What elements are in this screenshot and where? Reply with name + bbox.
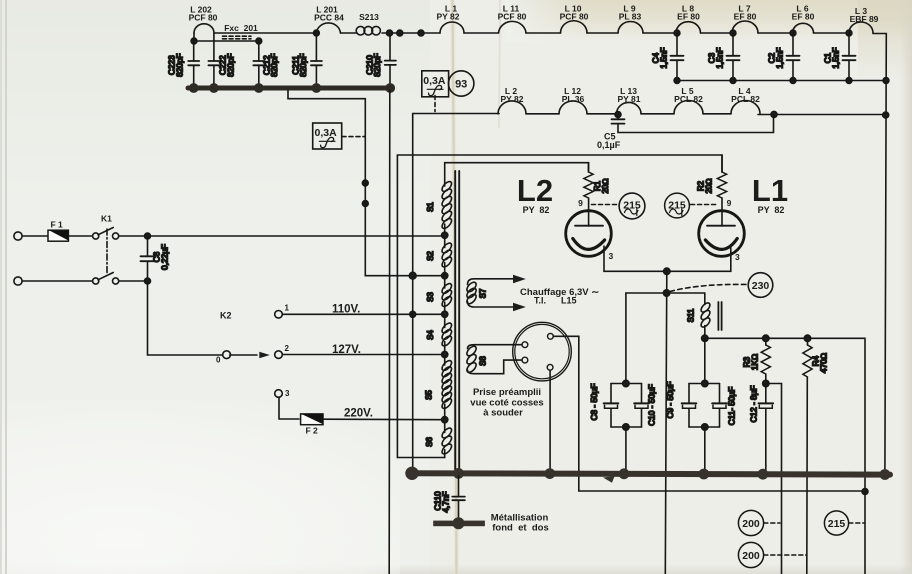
- winding S7 heater 6.3V: [465, 275, 526, 311]
- winding S11: [687, 293, 722, 338]
- winding S6: [425, 420, 453, 458]
- svg-text:PCF 80: PCF 80: [560, 12, 589, 22]
- wire boost line down page: [665, 271, 667, 574]
- wire B: S1 top to R1 (L2 heater): [445, 163, 589, 180]
- svg-text:1: 1: [285, 304, 290, 313]
- wire: [22, 235, 48, 237]
- wire down to selector K2: [148, 281, 223, 355]
- svg-text:L1: L1: [752, 173, 788, 208]
- wire HT rail y338: [705, 338, 865, 491]
- svg-text:S7: S7: [479, 288, 488, 298]
- svg-text:K2: K2: [220, 311, 232, 321]
- svg-text:C10 - 50µF: C10 - 50µF: [647, 384, 657, 426]
- svg-text:1KΩ: 1KΩ: [749, 353, 759, 370]
- svg-text:PY 82: PY 82: [523, 205, 550, 215]
- svg-text:220V.: 220V.: [344, 408, 373, 420]
- svg-text:820pF: 820pF: [174, 53, 184, 77]
- svg-text:200: 200: [742, 550, 760, 562]
- svg-text:3: 3: [285, 389, 290, 398]
- wire S2/S3 tap to selector column: [365, 275, 444, 277]
- svg-text:EF 80: EF 80: [792, 12, 815, 22]
- winding S3: [426, 276, 453, 315]
- switch K1 bottom pole: [93, 273, 119, 285]
- heater choke L202 PCF80: [189, 5, 218, 34]
- wire row1 to right edge vertical: [873, 33, 886, 35]
- svg-text:L2: L2: [517, 173, 553, 208]
- test point 215 bottom: [824, 511, 864, 535]
- bus terminal dot: [405, 467, 418, 480]
- svg-text:K1: K1: [101, 214, 112, 224]
- svg-text:820pF: 820pF: [225, 53, 235, 77]
- svg-text:PCF 80: PCF 80: [189, 13, 218, 23]
- preamp socket: [513, 322, 572, 381]
- test point 200 lower: [738, 542, 806, 567]
- wire row2 right segment: [758, 114, 886, 116]
- svg-text:C8 - 50µF: C8 - 50µF: [589, 383, 599, 420]
- capacitor C110 4,7nF: [433, 476, 465, 521]
- fuse F1: [48, 220, 68, 242]
- wire: [69, 235, 93, 237]
- capacitor C2 1,5nF: [767, 30, 800, 83]
- svg-text:PL 83: PL 83: [619, 12, 642, 22]
- winding S5: [425, 355, 454, 420]
- svg-text:4,7nF: 4,7nF: [440, 491, 450, 512]
- label L1: [752, 173, 788, 215]
- svg-text:PCL 82: PCL 82: [674, 94, 703, 104]
- capacitor C212: [253, 41, 279, 86]
- wire: [119, 280, 148, 282]
- svg-text:0: 0: [216, 356, 221, 365]
- svg-text:1,5nF: 1,5nF: [658, 47, 668, 68]
- svg-text:F 1: F 1: [51, 220, 64, 230]
- capacitor C6: [141, 238, 170, 279]
- node S11 bottom: [702, 335, 708, 341]
- text Prise preamplii: [470, 387, 543, 419]
- svg-text:215: 215: [828, 518, 846, 530]
- svg-text:0,22µF: 0,22µF: [159, 244, 169, 270]
- contact 3: [275, 389, 290, 398]
- chassis bus top (thick): [188, 86, 393, 91]
- svg-text:C12 - 8µF: C12 - 8µF: [749, 385, 759, 422]
- wire branch to C8 and S11: [626, 292, 705, 294]
- contact 2: [275, 344, 290, 358]
- resistor R4 470ohm: [803, 335, 828, 574]
- capacitors C8/C10 50uF: [589, 293, 657, 472]
- svg-text:1,5nF: 1,5nF: [774, 47, 784, 68]
- ground bus bottom (thick): [412, 473, 891, 474]
- svg-text:PCF 80: PCF 80: [498, 12, 527, 22]
- wire bus to voltage-selector column: [362, 180, 368, 186]
- winding S2: [426, 235, 453, 275]
- svg-text:S2: S2: [426, 251, 435, 261]
- wire L202 left lead down: [193, 33, 195, 41]
- wire L2 cathode pin 3: [604, 246, 667, 271]
- svg-text:3: 3: [735, 252, 740, 262]
- text Chauffage: [520, 287, 599, 306]
- node cathodes junction: [664, 268, 670, 274]
- heater choke L 1 PY 82: [436, 4, 464, 34]
- wire R3 bottom branch down page: [766, 384, 782, 574]
- heater choke L 8 EF 80: [643, 4, 701, 34]
- svg-text:0,3A: 0,3A: [423, 75, 446, 87]
- svg-text:S8: S8: [479, 356, 488, 366]
- contact 1: [275, 304, 290, 319]
- chassis terminal metallisation: [433, 517, 485, 529]
- winding S8 preamp heater: [465, 345, 522, 374]
- heater choke L 12 PL 36: [526, 86, 587, 114]
- svg-text:20Ω: 20Ω: [601, 178, 610, 193]
- wire cap-bank top rail: [194, 40, 259, 42]
- svg-text:EF 80: EF 80: [734, 12, 757, 22]
- test point 200 upper: [738, 510, 780, 535]
- wire L1 cathode pin 3: [667, 247, 731, 271]
- text Metallisation: [491, 512, 549, 533]
- wire socket pin4 to bus: [549, 370, 551, 472]
- ferrite bead Fxc 201: [223, 23, 259, 39]
- wire S6 bottom: [397, 457, 444, 459]
- wire 110V: [283, 313, 445, 315]
- heater choke L 10 PCF 80: [526, 4, 589, 34]
- resistor R2 20ohm: [697, 155, 727, 226]
- wire contact3 down: [279, 397, 299, 419]
- wire C210/chassis vertical down page: [388, 90, 391, 574]
- svg-text:0,3A: 0,3A: [315, 127, 338, 139]
- heater choke L 11 PCF 80: [464, 4, 527, 34]
- svg-text:S3: S3: [426, 292, 435, 302]
- svg-text:1,5nF: 1,5nF: [830, 47, 840, 68]
- svg-text:S4: S4: [426, 330, 435, 340]
- svg-text:PY 82: PY 82: [758, 205, 785, 215]
- wire K1 to transformer tap S1/S2: [119, 235, 445, 237]
- capacitor C5 0,1uF: [597, 112, 774, 151]
- svg-text:PY 81: PY 81: [617, 94, 640, 104]
- tap junction dots: [442, 232, 448, 238]
- svg-text:Fxc 201: Fxc 201: [224, 23, 258, 33]
- heater choke L 5 PCL 82: [641, 86, 703, 114]
- svg-text:EF 80: EF 80: [677, 12, 700, 22]
- fuse F2: [301, 414, 323, 436]
- dashed link fuse to heater row2: [434, 96, 436, 112]
- svg-text:2: 2: [285, 344, 290, 353]
- svg-text:S1: S1: [426, 202, 435, 212]
- svg-text:93: 93: [455, 79, 467, 91]
- wire: [22, 280, 92, 282]
- wire socket pin to test line: [553, 336, 579, 491]
- svg-text:S11: S11: [687, 308, 696, 322]
- capacitor C211: [314, 30, 320, 36]
- label L2: [517, 173, 553, 215]
- svg-text:127V.: 127V.: [332, 344, 361, 356]
- heater choke L 2 PY 82: [498, 86, 526, 114]
- wiper arrow: [230, 354, 257, 356]
- selector K2 common contact 0: [216, 311, 232, 365]
- wire 220V: [323, 418, 445, 421]
- switch K1 link dash-dot: [106, 229, 108, 273]
- switch K1 top pole: [93, 214, 119, 240]
- svg-text:C11- 50µF: C11- 50µF: [727, 387, 737, 426]
- svg-text:470Ω: 470Ω: [818, 352, 828, 373]
- winding S4: [426, 314, 453, 354]
- tube L2 PY82: [566, 198, 612, 256]
- wire right-edge vertical: [885, 34, 886, 475]
- capacitors C9/C11 50uF: [665, 338, 737, 472]
- svg-text:PL 36: PL 36: [562, 94, 585, 104]
- svg-text:PCC 84: PCC 84: [314, 13, 344, 23]
- node boost branch: [663, 290, 669, 296]
- page fold seam: [453, 0, 457, 574]
- resistor R1 20ohm: [584, 163, 610, 226]
- svg-text:PY 82: PY 82: [436, 12, 459, 22]
- capacitor C222: [208, 33, 235, 86]
- svg-text:S213: S213: [359, 12, 379, 22]
- wire 127V: [283, 354, 445, 356]
- svg-text:EBF 89: EBF 89: [850, 14, 879, 24]
- svg-text:C9 - 50µF: C9 - 50µF: [665, 381, 675, 418]
- svg-text:S6: S6: [425, 437, 434, 447]
- capacitor C4 1,5nF: [651, 30, 684, 83]
- node test line: [862, 489, 868, 495]
- svg-text:PY 82: PY 82: [500, 94, 523, 104]
- heater choke L 7 EF 80: [701, 4, 759, 34]
- fuse 0,3A (selector column): [313, 123, 342, 149]
- svg-text:820pF: 820pF: [269, 53, 279, 77]
- left paper crease: [5, 0, 7, 574]
- heater choke L 3 EBF 89: [814, 6, 879, 33]
- capacitor C12 8uF: [749, 380, 774, 472]
- svg-text:F 2: F 2: [306, 426, 319, 436]
- mains input terminal bottom: [14, 277, 22, 285]
- svg-text:3: 3: [609, 251, 614, 261]
- wire row1 segment with junction dots: [387, 32, 441, 34]
- node C6 bottom: [145, 278, 151, 284]
- capacitor C223: [167, 41, 200, 86]
- svg-text:110V.: 110V.: [332, 304, 360, 316]
- test point 215 right: [665, 193, 719, 218]
- mains input terminal top: [14, 232, 22, 240]
- svg-text:0,1µF: 0,1µF: [597, 140, 621, 150]
- heater choke L 6 EF 80: [758, 4, 815, 34]
- wire C-row bottom rail: [677, 80, 886, 82]
- node C6 top: [145, 233, 151, 239]
- svg-text:200: 200: [742, 518, 760, 530]
- svg-text:T.I. L15: T.I. L15: [534, 296, 577, 306]
- heater choke L 4 PCL 82: [703, 86, 760, 114]
- svg-text:1,5nF: 1,5nF: [714, 47, 724, 68]
- wire heater row2 start corner: [413, 113, 499, 115]
- fuse 0,3A with lamp 93: [422, 71, 474, 97]
- svg-text:230: 230: [752, 280, 770, 292]
- wire 215 test vertical: [864, 492, 866, 574]
- test point 230: [670, 273, 773, 298]
- heater choke L 9 PL 83: [587, 4, 643, 34]
- capacitor C1 1,5nF: [823, 30, 856, 83]
- svg-text:820pF: 820pF: [372, 53, 382, 77]
- coil S213: [341, 12, 387, 35]
- transformer core: [454, 171, 456, 471]
- svg-text:fond et dos: fond et dos: [492, 522, 548, 533]
- capacitor C210: [364, 33, 396, 86]
- wire heater feed vertical (110V tap to row2): [412, 114, 414, 474]
- capacitor C3 1,5nF: [707, 30, 740, 83]
- svg-text:à souder: à souder: [483, 408, 523, 419]
- tube L1 PY82: [699, 198, 745, 256]
- bus arrow mark: [603, 476, 615, 483]
- svg-text:PCL 82: PCL 82: [731, 94, 760, 104]
- heater choke L201 PCC84: [214, 5, 344, 34]
- svg-text:9: 9: [727, 198, 732, 208]
- wire A: S6 bottom to R2 (L1 heater): [397, 155, 722, 458]
- dashed link fuse to column: [342, 136, 365, 138]
- svg-text:S5: S5: [425, 390, 434, 400]
- svg-text:Prise préamplii: Prise préamplii: [473, 387, 541, 398]
- winding S1: [426, 180, 453, 235]
- heater choke L 13 PY 81: [587, 86, 641, 114]
- svg-text:20Ω: 20Ω: [705, 178, 714, 193]
- svg-text:9: 9: [578, 198, 583, 208]
- test point 215 left: [592, 193, 645, 219]
- svg-text:820pF: 820pF: [298, 53, 308, 77]
- node 110V heater feed: [410, 311, 416, 317]
- resistor R3 1K: [742, 335, 771, 383]
- wire test line y491: [579, 490, 865, 492]
